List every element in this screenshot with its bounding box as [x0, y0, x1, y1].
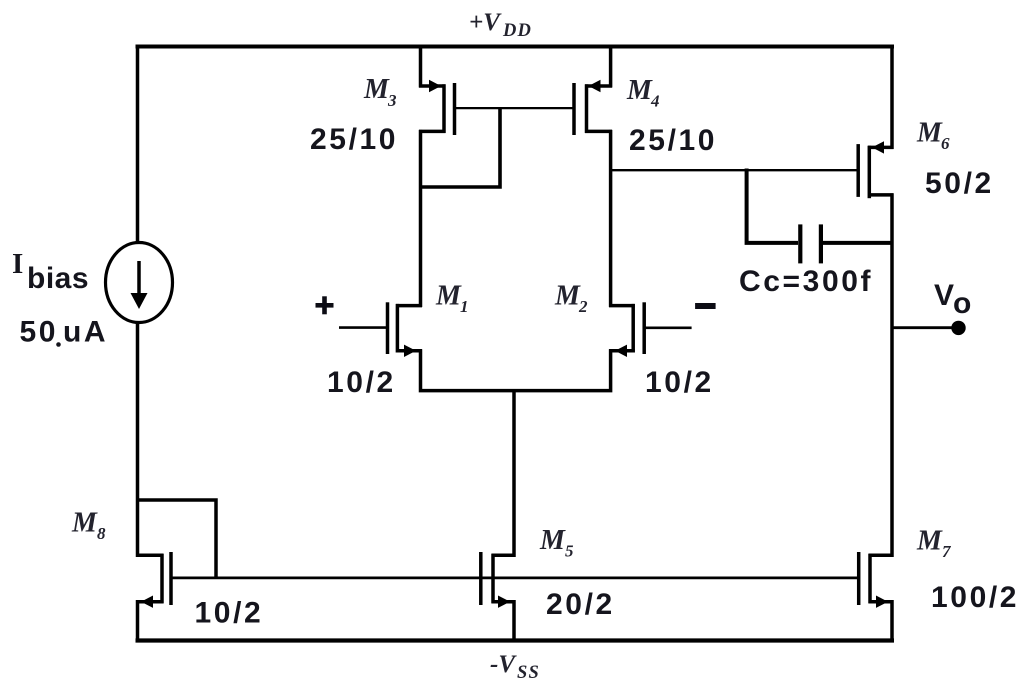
svg-text:M: M: [363, 74, 390, 105]
svg-text:M: M: [539, 525, 566, 556]
svg-text:M: M: [554, 281, 581, 312]
label M6: [916, 118, 950, 154]
svg-text:M: M: [626, 75, 653, 106]
transistor M1: [339, 302, 422, 357]
svg-text:20/2: 20/2: [546, 588, 615, 621]
svg-text:2: 2: [578, 297, 588, 316]
svg-text:-V: -V: [490, 651, 517, 678]
svg-text:M: M: [435, 281, 462, 312]
wire: -VSS bottom rail: [136, 638, 895, 642]
label M5: [539, 525, 574, 561]
node Vo terminal dot: [951, 321, 965, 335]
svg-text:25/10: 25/10: [310, 123, 398, 156]
svg-text:4: 4: [650, 92, 660, 111]
label 50 uA: [20, 316, 109, 349]
label M3: [363, 74, 397, 110]
transistor M6: [858, 141, 893, 198]
label 10/2 (M2): [645, 366, 714, 399]
svg-text:6: 6: [941, 134, 950, 153]
svg-text:Cc=300f: Cc=300f: [739, 265, 873, 298]
wire: right rail (M6 drain to bottom, output node): [890, 193, 894, 557]
capacitor Cc: [800, 224, 893, 263]
svg-text:M: M: [71, 508, 98, 539]
svg-text:1: 1: [460, 297, 469, 316]
svg-text:SS: SS: [517, 663, 540, 683]
label M8: [71, 508, 106, 544]
wire: M3 diode connection: [419, 108, 500, 187]
label 10/2 (M8): [195, 597, 264, 630]
wire: output Vo stub: [892, 326, 958, 329]
transistor M8 (diode-connected NMOS): [136, 552, 171, 642]
svg-text:10/2: 10/2: [645, 366, 714, 399]
wire: M8 gate loop (drain-gate tie): [138, 500, 217, 578]
capacitor Cc branch from gate line: [747, 169, 798, 243]
label M1: [435, 281, 469, 317]
wire: right rail upper (VDD to M6 source): [890, 45, 894, 150]
label Cc=300f: [739, 265, 873, 298]
svg-text:o: o: [953, 287, 974, 320]
label - input: [695, 303, 716, 309]
wire: common gate line M8-M5-M7: [171, 577, 860, 580]
svg-text:M: M: [916, 526, 943, 557]
label Vo: [934, 279, 974, 320]
node +VDD label: [469, 9, 532, 41]
wire: differential pair tail: [421, 349, 611, 390]
label 25/10 (M4): [629, 124, 717, 157]
svg-text:7: 7: [942, 542, 952, 561]
label Ibias: [12, 248, 89, 295]
svg-text:10/2: 10/2: [327, 366, 396, 399]
label M4: [626, 75, 660, 111]
svg-text:3: 3: [387, 91, 397, 110]
wire: M4 drain to M6 gate: [609, 169, 858, 171]
label 100/2: [931, 581, 1019, 614]
svg-text:50: 50: [20, 316, 59, 349]
svg-text:bias: bias: [27, 262, 89, 295]
wire: left rail upper segment: [136, 45, 140, 244]
label 20/2: [546, 588, 615, 621]
current source Ibias: [106, 243, 173, 323]
label 10/2 (M1): [327, 366, 396, 399]
wire: left rail lower segment (Ibias to M8 drain): [136, 322, 140, 557]
transistor M3: [419, 45, 455, 136]
node -VSS label: [490, 651, 540, 683]
label 25/10 (M3): [310, 123, 398, 156]
label + input: [316, 296, 334, 314]
transistor M4: [574, 45, 612, 136]
svg-text:M: M: [916, 118, 943, 149]
svg-text:10/2: 10/2: [195, 597, 264, 630]
svg-text:25/10: 25/10: [629, 124, 717, 157]
svg-text:I: I: [12, 248, 23, 280]
wire: M3-M4 gate line: [455, 107, 575, 109]
wire: M3 drain to M1 drain: [419, 130, 423, 307]
label M2: [554, 281, 588, 317]
svg-text:DD: DD: [502, 21, 532, 41]
svg-text:8: 8: [97, 524, 106, 543]
transistor M5: [481, 552, 516, 642]
wire: tail down to M5 drain: [512, 389, 516, 557]
wire: +VDD top rail: [136, 45, 895, 49]
label 50/2: [925, 167, 994, 200]
svg-text:uA: uA: [63, 316, 108, 349]
svg-text:5: 5: [565, 542, 574, 561]
svg-text:+V: +V: [469, 9, 502, 36]
transistor M2: [609, 302, 692, 357]
svg-text:100/2: 100/2: [931, 581, 1019, 614]
svg-text:50/2: 50/2: [925, 167, 994, 200]
label M7: [916, 526, 952, 562]
transistor M7: [859, 552, 894, 642]
wire: M4 drain to M2 drain: [609, 130, 613, 307]
